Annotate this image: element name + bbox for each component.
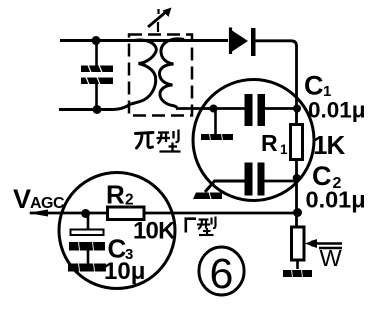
- capacitor C3 positive plate: [71, 230, 104, 236]
- wire C1 right to rail: [265, 107, 297, 110]
- svg-text:AGC: AGC: [30, 195, 65, 212]
- node AGC line right junction: [293, 208, 302, 217]
- resonant circuit big circle: [193, 80, 314, 201]
- label C1: [304, 71, 331, 101]
- capacitor C3 negative plate: [69, 242, 105, 251]
- wire C3 top lead: [87, 214, 90, 231]
- label gamma-type: [186, 219, 196, 233]
- wire C2 left lead: [205, 181, 245, 192]
- svg-text:R: R: [106, 180, 125, 210]
- ground bar below C3: [68, 263, 106, 272]
- diode D1: [231, 28, 256, 57]
- capacitor tuning cap top plate: [81, 65, 113, 73]
- label gamma-type second char 型 (drawn): [197, 217, 216, 236]
- node top-left junction: [92, 36, 101, 45]
- svg-text:C: C: [304, 71, 324, 101]
- node C1 left junction: [210, 105, 218, 113]
- svg-text:10μ: 10μ: [104, 258, 145, 285]
- node R1 bottom junction: [293, 174, 301, 182]
- ground bar below C1 left node: [201, 134, 233, 141]
- wire ground lead from C1 left node: [214, 109, 217, 135]
- svg-text:0.01μ: 0.01μ: [306, 187, 366, 213]
- svg-text:6: 6: [210, 250, 234, 298]
- transformer primary winding: [131, 40, 156, 104]
- wire secondary bottom lead: [176, 107, 245, 110]
- capacitor tuning cap bottom plate: [81, 77, 113, 85]
- node bottom-left junction: [93, 105, 102, 114]
- svg-text:10K: 10K: [133, 218, 176, 245]
- resistor R2 body: [108, 207, 145, 220]
- svg-text:1: 1: [280, 142, 288, 157]
- label pi-type second char 型 (drawn): [157, 130, 181, 152]
- svg-text:V: V: [13, 184, 31, 214]
- wire bottom-left horizontal: [59, 104, 131, 110]
- svg-text:W: W: [320, 245, 343, 271]
- wire C3 bottom lead: [87, 251, 90, 265]
- resistor R1 body: [291, 125, 303, 160]
- wire R1 bottom lead: [295, 160, 298, 228]
- ground bar below potentiometer: [283, 270, 312, 278]
- wire pot bottom lead: [296, 260, 299, 269]
- label C3: [108, 234, 134, 264]
- wire capacitor top lead: [95, 41, 98, 67]
- capacitor C2 plates: [245, 163, 265, 196]
- capacitor C1 plates: [245, 94, 266, 126]
- wire capacitor bottom lead: [95, 84, 98, 110]
- label pi-type (CJK drawn): [136, 133, 154, 149]
- wire top-left horizontal: [60, 39, 228, 42]
- AGC filter circle: [59, 173, 175, 289]
- label R2: [106, 180, 134, 210]
- wire diode to corner: [256, 41, 297, 125]
- node C1 right junction: [293, 105, 301, 113]
- potentiometer W body: [292, 227, 305, 260]
- transformer T1 dashed box: [129, 35, 192, 116]
- figure number 6 circled: [199, 247, 244, 298]
- svg-text:2: 2: [125, 192, 134, 209]
- transformer adjustable core arrow: [148, 8, 172, 33]
- svg-text:R: R: [261, 130, 278, 156]
- potentiometer wiper arrow: [305, 239, 342, 248]
- ground bar below C2 left: [193, 192, 222, 199]
- label R1: [261, 130, 288, 157]
- transformer secondary winding: [160, 39, 185, 109]
- svg-text:0.01μ: 0.01μ: [308, 98, 366, 123]
- svg-text:1K: 1K: [313, 130, 345, 160]
- node AGC left junction: [81, 209, 90, 218]
- label W with overline: [319, 245, 343, 271]
- wire AGC horizontal line: [30, 212, 297, 215]
- arrow VAGC: [28, 210, 48, 217]
- wire C2 right lead: [265, 180, 297, 183]
- label C2: [312, 161, 342, 192]
